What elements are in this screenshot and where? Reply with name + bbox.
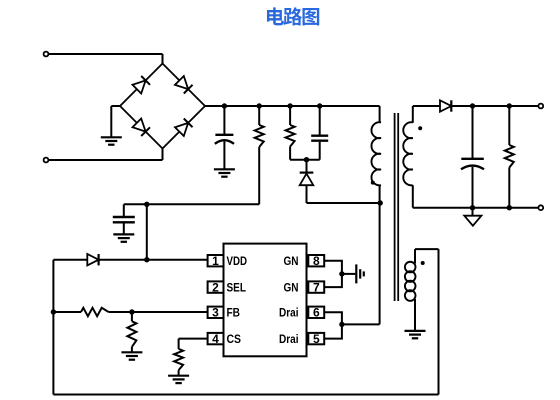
node: FB divider	[129, 309, 134, 314]
ground (C4)	[113, 234, 134, 241]
ground (R4)	[121, 352, 142, 359]
wire: left bus	[52, 260, 54, 395]
transformer T1 secondary winding	[403, 122, 413, 185]
wire: FB line to pin 3	[109, 311, 208, 313]
resistor R3 (FB upper)	[81, 308, 109, 316]
wire: up to bridge bottom vertex	[162, 148, 164, 161]
wire: bridge left vertex stub	[111, 105, 120, 107]
wire: primary bottom / drain bus	[379, 185, 381, 324]
wire: to IC ground	[342, 273, 356, 275]
wire: secondary top lead	[412, 106, 414, 123]
bridge diode D2 (top->right)	[175, 76, 188, 89]
node: out- R5	[507, 205, 512, 210]
transformer T1 primary winding	[371, 122, 381, 185]
resistor R2 (snubber)	[286, 125, 295, 147]
wire: aux top lead	[414, 249, 416, 263]
svg-text:7: 7	[313, 280, 320, 294]
wire: output + rail	[451, 105, 538, 107]
ground (C1)	[214, 169, 235, 176]
wire: output - rail	[413, 207, 539, 209]
resistor R1 (startup)	[255, 125, 264, 147]
svg-text:Drai: Drai	[279, 332, 299, 346]
ground (output, open triangle)	[472, 208, 474, 216]
wire: secondary bottom lead	[412, 185, 414, 208]
resistor R5 (load)	[505, 145, 514, 168]
node: snubber junction	[304, 157, 309, 162]
pin box 1 (VDD)	[208, 255, 224, 266]
wire: D5 anode down	[306, 185, 308, 203]
node: rail-C2	[317, 103, 322, 108]
phase dot (secondary)	[418, 126, 422, 130]
wire: pins 8-7 tie	[325, 261, 342, 287]
bridge diode D3 (left->bottom)	[133, 119, 146, 132]
capacitor C3 (output, polarized)	[472, 106, 474, 158]
wire: snubber return to drain	[307, 202, 381, 204]
svg-text:Drai: Drai	[279, 306, 299, 320]
node: rail-C1	[222, 103, 227, 108]
pin box 4 (CS)	[208, 333, 224, 344]
svg-text:GN: GN	[284, 280, 299, 294]
node: left bus - FB branch	[51, 309, 56, 314]
wire: aux bottom lead	[414, 299, 416, 330]
svg-text:3: 3	[212, 306, 219, 320]
svg-text:SEL: SEL	[227, 280, 247, 294]
node: GND tie	[339, 271, 344, 276]
pin box 3 (FB)	[208, 307, 224, 318]
pin box 7 (GN)	[308, 281, 324, 292]
phase dot (aux)	[421, 261, 425, 265]
wire: drain tie to primary	[342, 323, 380, 325]
ground (bridge)	[101, 137, 122, 144]
output terminal -	[538, 205, 543, 210]
diode D6 (output rectifier)	[440, 100, 451, 111]
wire: VDD vertical link	[146, 204, 148, 259]
node: rail-R1	[257, 103, 262, 108]
wire: right vertical to aux	[438, 249, 440, 394]
node: out+ R5	[507, 103, 512, 108]
wire: R5 to out- rail	[508, 168, 510, 208]
wire: R6 to ground	[178, 370, 180, 375]
wire: D7 to VDD pin	[99, 259, 208, 261]
wire: down to bridge ground	[110, 106, 112, 137]
wire: top input to bridge	[49, 53, 163, 55]
wire: secondary to D6	[413, 105, 440, 107]
wire: R2 to snubber junction	[289, 147, 291, 160]
node: drain-snubber junction	[378, 200, 383, 205]
node: aux feed junction	[144, 202, 149, 207]
wire: R4 to ground	[131, 347, 133, 352]
ground (R6)	[168, 376, 189, 383]
wire: CS line	[179, 338, 208, 340]
node: VDD junction	[144, 257, 149, 262]
wire: aux top	[415, 248, 439, 250]
input terminal N (bottom)	[44, 158, 49, 163]
wire: rail to R5	[508, 106, 510, 145]
wire: snubber RC junction	[290, 159, 320, 161]
wire: aux feed line	[124, 203, 259, 205]
svg-text:2: 2	[212, 280, 219, 294]
capacitor C4 (VDD)	[123, 204, 125, 216]
wire: down to bridge top vertex	[162, 54, 164, 65]
svg-text:4: 4	[212, 332, 219, 346]
wire: rail to R1	[258, 106, 260, 125]
svg-text:FB: FB	[227, 306, 241, 320]
pin box 8 (GN)	[308, 255, 324, 266]
svg-text:8: 8	[313, 254, 320, 268]
wire: left bus to D7	[53, 259, 87, 261]
input terminal L (top)	[44, 52, 49, 57]
diode D7 (VDD rectifier)	[87, 254, 98, 265]
capacitor C2 (snubber)	[319, 106, 321, 135]
wire: FB line left	[53, 311, 81, 313]
phase dot (primary)	[371, 181, 375, 185]
svg-text:6: 6	[313, 306, 320, 320]
pin box 2 (SEL)	[208, 281, 224, 292]
wire: pins 6-5 tie	[325, 312, 342, 338]
wire: CS down to R6	[178, 339, 180, 349]
node: rail-R2	[287, 103, 292, 108]
transformer core	[394, 113, 396, 301]
node: out- C3	[470, 205, 475, 210]
pin box 6 (Drai)	[308, 307, 324, 318]
ground (IC, pointing right)	[356, 264, 364, 283]
ground (aux)	[405, 331, 426, 338]
wire: rail down to primary top	[379, 106, 381, 122]
svg-text:5: 5	[313, 332, 320, 346]
output terminal +	[538, 104, 543, 109]
node: out+ C3	[470, 103, 475, 108]
wire: rail to R2	[289, 106, 291, 125]
node: drain tie	[339, 322, 344, 327]
pin box 5 (Drai)	[308, 333, 324, 344]
wire: main HV rail	[205, 105, 380, 107]
bridge diode D1 (left->top)	[133, 80, 146, 93]
svg-text:VDD: VDD	[227, 254, 248, 268]
svg-text:1: 1	[212, 254, 219, 268]
bridge diode D4 (bottom->right)	[175, 123, 188, 136]
wire: bottom input to bridge	[49, 159, 163, 161]
resistor R4 (FB lower)	[127, 321, 136, 347]
transformer T1 aux winding	[405, 262, 416, 301]
title 电路图	[267, 7, 319, 25]
diode D5 (snubber clamp, cathode up)	[306, 160, 308, 172]
resistor R6 (CS)	[174, 349, 183, 370]
wire: R1 to VDD feed line	[258, 147, 260, 204]
capacitor C1 (bulk, polarized)	[223, 106, 225, 134]
wire: FB node down	[131, 312, 133, 321]
IC U1 body	[224, 244, 307, 357]
wire: bottom rail	[53, 394, 438, 396]
svg-text:GN: GN	[284, 254, 299, 268]
svg-text:CS: CS	[227, 332, 242, 346]
bridge rectifier BR1	[120, 64, 205, 149]
